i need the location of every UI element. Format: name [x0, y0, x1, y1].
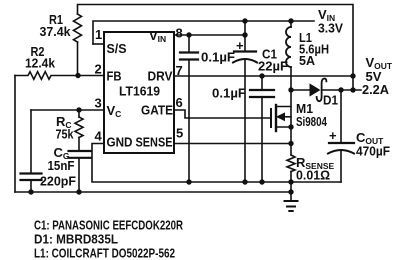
svg-text:DRV: DRV	[148, 69, 173, 84]
svg-text:S/S: S/S	[107, 41, 127, 56]
wire DRV pin 7 row	[174, 73, 356, 78]
svg-text:GATE: GATE	[141, 103, 173, 118]
label VOUT 5V 2.2A	[362, 55, 393, 97]
ground	[285, 201, 298, 211]
label L1 value	[299, 30, 329, 68]
wire ground rail B	[15, 189, 294, 194]
label M1 Si9804	[296, 101, 328, 129]
capacitor COUT 470uF	[328, 87, 354, 182]
svg-text:12.4k: 12.4k	[25, 56, 56, 71]
svg-text:22µF: 22µF	[258, 59, 288, 74]
svg-text:VIN: VIN	[149, 28, 166, 44]
svg-text:3: 3	[95, 96, 102, 111]
label COUT plus	[329, 128, 337, 143]
svg-text:0.1µF: 0.1µF	[201, 50, 235, 65]
capacitor 0.1uF (VIN-DRV bypass)	[180, 35, 198, 182]
wire VOUT stub	[350, 87, 355, 92]
resistor RSENSE	[287, 144, 295, 202]
transistor M1 Si9804	[174, 90, 294, 144]
wire VC row pin 3	[31, 107, 104, 112]
label R1 value	[40, 12, 72, 39]
label VIN 3.3V	[318, 7, 343, 36]
wire R2 left down to ground rail	[14, 76, 16, 193]
diode D1 schottky	[291, 79, 361, 102]
svg-text:2: 2	[95, 62, 102, 77]
svg-text:Si9804: Si9804	[296, 114, 328, 129]
capacitor CG 15nF	[69, 151, 91, 192]
svg-text:0.01Ω: 0.01Ω	[296, 168, 330, 183]
wire FB row to IC pin 2	[75, 73, 104, 78]
resistor RC 75k	[75, 110, 83, 151]
label R2 value	[25, 44, 56, 71]
label C1 value	[258, 47, 288, 74]
label CG 15nF	[48, 145, 75, 173]
resistor R1	[74, 14, 82, 76]
svg-text:GND: GND	[107, 135, 133, 150]
resistor R2	[15, 72, 78, 80]
wire VIN pin 8 row	[174, 32, 248, 37]
svg-text:1: 1	[95, 27, 102, 42]
label C1 plus	[236, 38, 244, 53]
IC U1 LT1619 box	[104, 32, 174, 153]
svg-text:D1: D1	[323, 93, 338, 108]
label RSENSE value	[296, 155, 335, 183]
capacitor 220pF	[21, 110, 42, 192]
svg-text:D1: MBRD835L: D1: MBRD835L	[34, 233, 118, 247]
svg-text:15nF: 15nF	[48, 158, 75, 173]
svg-text:5A: 5A	[299, 53, 316, 68]
wire S/S pin 1 stub	[93, 43, 104, 45]
label 0.1uF	[201, 50, 235, 65]
IC pin labels	[107, 28, 174, 150]
label 220pF	[40, 174, 76, 189]
svg-text:FB: FB	[107, 69, 122, 84]
svg-text:37.4k: 37.4k	[40, 24, 72, 39]
node switch junction	[288, 87, 293, 92]
label RC 75k	[56, 114, 75, 142]
label 0.1uF DRV	[212, 86, 246, 101]
svg-text:+: +	[236, 38, 244, 53]
svg-text:C1: PANASONIC EEFCDOK220R: C1: PANASONIC EEFCDOK220R	[34, 219, 183, 233]
wire SENSE pin 5 row	[174, 141, 294, 146]
svg-text:L1: COILCRAFT DO5022P-562: L1: COILCRAFT DO5022P-562	[34, 247, 175, 260]
label D1	[323, 93, 338, 108]
IC pin numbers	[95, 26, 184, 144]
svg-text:SENSE: SENSE	[136, 135, 173, 150]
wire top feedback VOUT	[78, 5, 354, 91]
wire GND pin 4	[92, 144, 341, 185]
svg-text:75k: 75k	[56, 127, 75, 142]
caption notes	[34, 219, 183, 260]
inductor L1	[286, 21, 291, 90]
svg-text:2.2A: 2.2A	[362, 82, 390, 97]
svg-text:470µF: 470µF	[356, 144, 390, 159]
capacitor C1 22uF	[233, 21, 257, 182]
svg-text:+: +	[329, 128, 337, 143]
svg-text:220pF: 220pF	[40, 174, 76, 189]
svg-text:5: 5	[176, 126, 183, 141]
label COUT value	[356, 130, 390, 159]
svg-text:8: 8	[176, 26, 183, 41]
svg-text:LT1619: LT1619	[119, 84, 160, 99]
wire VIN rail	[93, 18, 314, 44]
svg-text:3.3V: 3.3V	[318, 21, 343, 36]
svg-text:0.1µF: 0.1µF	[212, 86, 246, 101]
capacitor 0.1uF (DRV bypass)	[250, 76, 274, 182]
svg-text:6: 6	[176, 95, 183, 110]
svg-text:4: 4	[95, 129, 103, 144]
svg-text:VC: VC	[107, 103, 122, 119]
